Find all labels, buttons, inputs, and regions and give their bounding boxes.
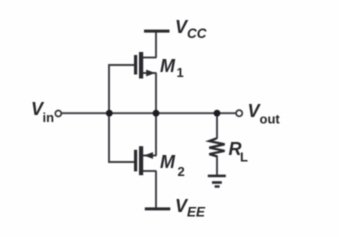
svg-text:out: out [260, 112, 281, 127]
svg-text:L: L [240, 150, 248, 165]
terminal Vin (open circle) [55, 111, 61, 117]
terminal Vout (open circle) [236, 110, 242, 116]
svg-text:M: M [160, 56, 176, 76]
node: RL junction dot [214, 110, 221, 117]
wire: horizontal output line from Vin terminal to Vout terminal [62, 112, 237, 114]
svg-text:EE: EE [187, 205, 206, 220]
svg-text:1: 1 [177, 65, 184, 80]
wire: M1 source down to output node [155, 73, 157, 113]
resistor RL zigzag [209, 138, 224, 156]
svg-text:2: 2 [178, 164, 185, 179]
wire: M1 source stub [142, 72, 157, 74]
svg-text:in: in [43, 110, 55, 125]
node: output junction dot at M1/M2 [153, 110, 160, 117]
svg-text:M: M [160, 152, 176, 172]
node: input junction dot [106, 110, 113, 117]
ground symbol (below RL) bar 1 [208, 175, 226, 178]
transistor M2 channel bar [139, 146, 143, 175]
svg-text:CC: CC [187, 26, 207, 41]
transistor M1 channel bar [139, 52, 143, 79]
wire: M1 drain stub [142, 57, 157, 59]
transistor M1 (NMOS source follower) gate bar [134, 55, 137, 75]
wire: output node to RL [216, 113, 218, 139]
wire: output node down to M2 source [155, 113, 157, 156]
wire: M2 drain down to VEE rail [155, 171, 157, 209]
wire: M2 drain stub [142, 170, 157, 172]
ground symbol bar 3 [215, 185, 220, 187]
wire: gate bus vertical (Vin node to both gates) [108, 64, 110, 163]
wire: M1 gate lead [109, 64, 135, 66]
power rail VEE bar [145, 207, 171, 210]
ground symbol bar 2 [212, 181, 222, 184]
wire: VCC rail down to M1 drain [155, 31, 157, 58]
power rail VCC bar [144, 30, 170, 33]
wire: M2 gate lead [109, 161, 135, 163]
transistor M2 (PMOS source follower) gate bar [134, 150, 137, 172]
transistor M1 source arrow (pointing right, NMOS) [146, 70, 155, 77]
wire: M2 source stub [142, 155, 157, 157]
wire: RL bottom to ground [216, 156, 218, 176]
transistor M2 source arrow (pointing left into channel, PMOS) [144, 152, 153, 159]
